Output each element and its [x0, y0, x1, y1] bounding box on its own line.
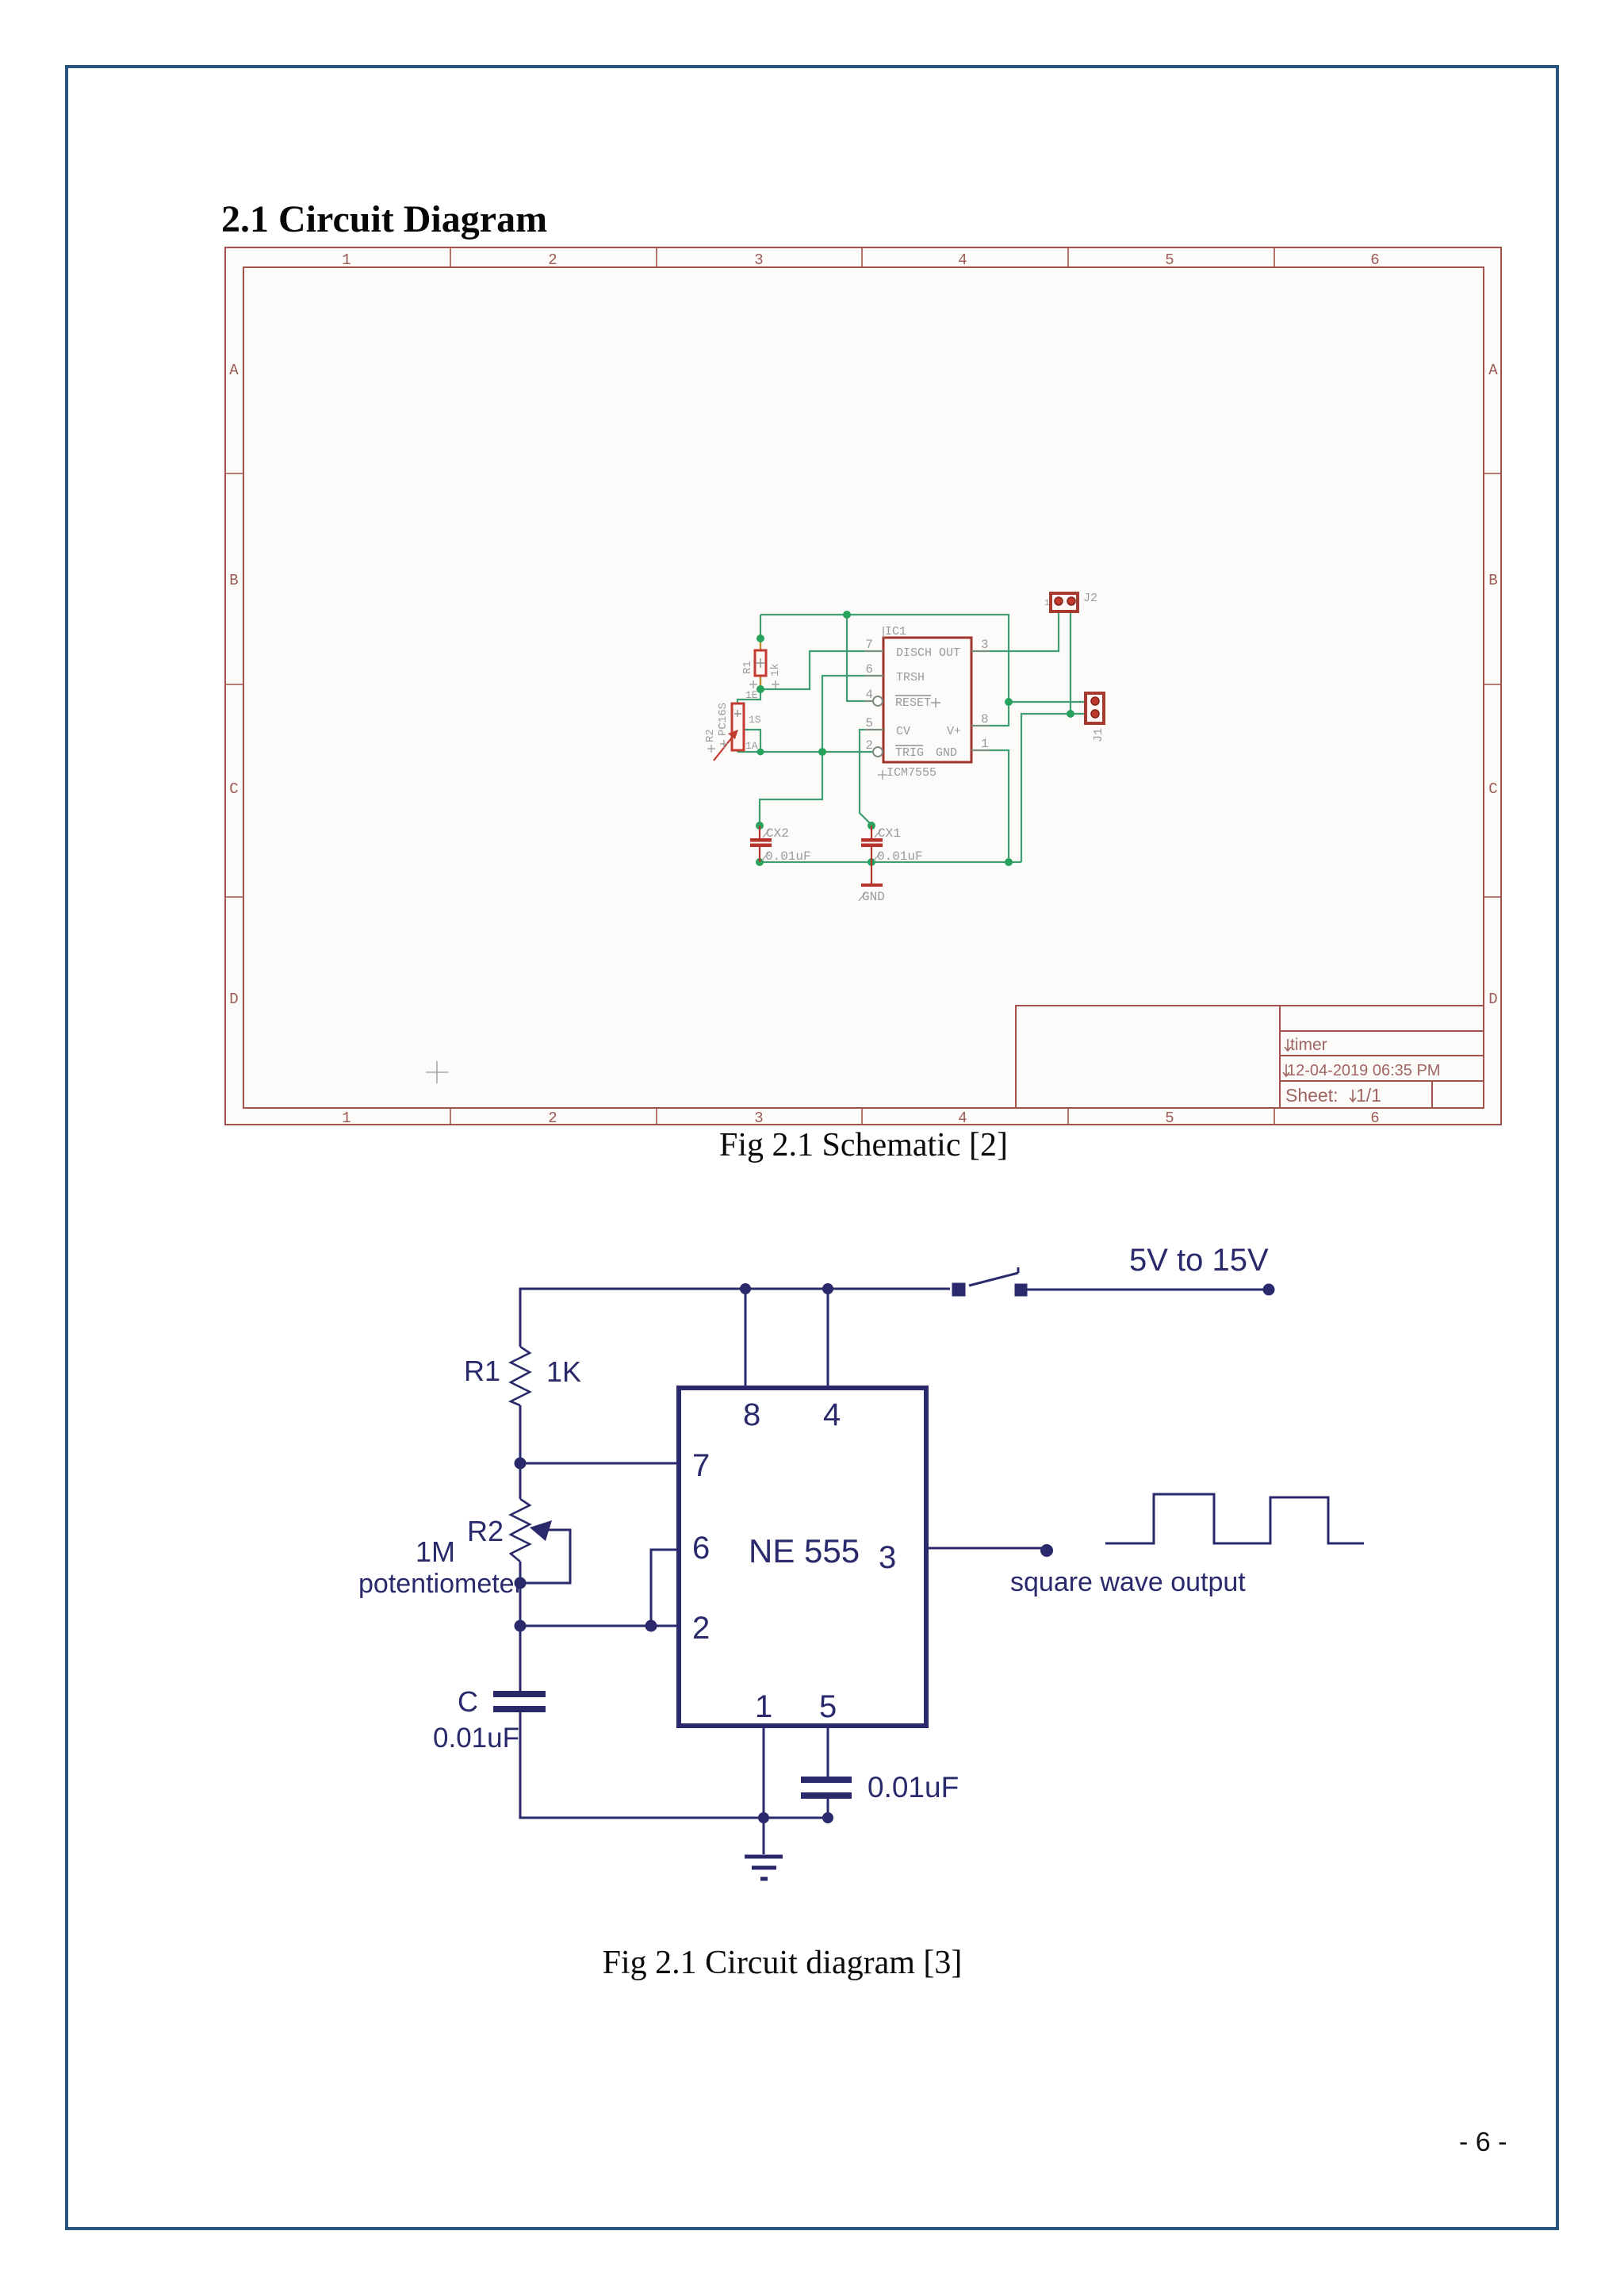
R2 pin labels — [745, 689, 761, 752]
node pin6 branch dot — [645, 1620, 657, 1632]
wire R2 wiper to TRIG — [744, 730, 760, 752]
IC1 pin numbers — [865, 638, 873, 753]
svg-text:2: 2 — [692, 1611, 710, 1646]
node supply end dot — [1263, 1284, 1275, 1296]
wire TRSH to TRIG and CX2 — [760, 676, 883, 826]
svg-text:NE 555: NE 555 — [749, 1532, 860, 1570]
square wave symbol — [1105, 1494, 1364, 1543]
node GND junction dots — [756, 710, 1074, 866]
svg-text:R2: R2 — [467, 1515, 504, 1547]
svg-text:C: C — [458, 1685, 478, 1718]
wire V+ top rail — [520, 1289, 1269, 1463]
wire VCC to J1 pin1 — [1009, 701, 1086, 703]
label C — [458, 1685, 478, 1718]
svg-text:6: 6 — [692, 1531, 710, 1566]
CX2 labels — [762, 826, 811, 864]
wire pin3 output — [926, 1547, 1043, 1550]
R2 label origin crosses — [707, 740, 728, 753]
IC1 reference label — [883, 625, 906, 638]
R2 labels — [704, 703, 730, 742]
wire DISCH to R1 bottom — [760, 651, 883, 689]
label 1M — [416, 1535, 455, 1568]
ground symbol — [745, 1819, 783, 1879]
wire pin6 — [651, 1550, 679, 1626]
switch SW1 — [953, 1267, 1026, 1295]
svg-text:4: 4 — [823, 1397, 841, 1432]
wire VCC top — [760, 615, 1009, 726]
wire R2 bottom lead — [519, 1562, 522, 1691]
svg-text:5: 5 — [819, 1689, 837, 1724]
wire OUT to J2 pin1 — [971, 611, 1059, 651]
svg-text:potentiometer: potentiometer — [358, 1569, 523, 1599]
node top rail dots — [740, 1283, 833, 1294]
title block variable markers — [1283, 1039, 1356, 1102]
wire IC pin1 to GND bus — [971, 750, 1009, 862]
wire R2 bottom stub — [737, 750, 738, 752]
ground symbol GND — [861, 862, 883, 885]
wire TRIG horizontal — [737, 751, 872, 753]
cursor cross — [426, 1061, 448, 1083]
label square wave output — [1010, 1567, 1246, 1597]
pin 4 RESET bubble — [873, 696, 883, 706]
wire C2 bottom lead — [827, 1799, 829, 1818]
wire pin1 down — [763, 1726, 765, 1818]
connector J1 — [1086, 693, 1104, 723]
label 5V to 15V — [1129, 1243, 1269, 1278]
capacitor CX2 — [750, 826, 772, 862]
capacitor C plates — [493, 1691, 546, 1712]
frame grid labels — [229, 251, 1498, 1127]
frame column ticks — [224, 247, 1502, 1125]
svg-text:5V to 15V: 5V to 15V — [1129, 1243, 1269, 1278]
node VCC junction dots — [843, 611, 1013, 706]
svg-text:square wave output: square wave output — [1010, 1567, 1246, 1597]
wire J1 pin2 GND — [1021, 714, 1086, 862]
IC1 pin names — [895, 646, 961, 760]
wire GND bottom bus — [760, 861, 1021, 863]
label R2 — [467, 1515, 504, 1547]
svg-text:0.01uF: 0.01uF — [868, 1771, 959, 1803]
capacitor C2 plates — [801, 1777, 852, 1799]
wire CV to CX1 — [860, 730, 883, 826]
label potentiometer — [358, 1569, 523, 1599]
J1 label — [1092, 728, 1105, 742]
node ground bus dots — [758, 1812, 833, 1823]
resistor R1 zigzag — [511, 1347, 530, 1405]
svg-text:1M: 1M — [416, 1535, 455, 1568]
caption figure 2.1 circuit diagram — [0, 1944, 1565, 1982]
schematic sheet background — [224, 247, 1502, 1125]
label NE 555 — [749, 1532, 860, 1570]
IC pin number labels — [692, 1397, 896, 1724]
svg-text:1: 1 — [755, 1689, 772, 1724]
node pin7 junction — [515, 1458, 527, 1470]
IC1 pin stubs left — [864, 651, 883, 730]
node R1 junction dots — [756, 634, 764, 693]
wire C bottom to ground bus — [520, 1712, 828, 1818]
R2 wiper arrow — [520, 1520, 570, 1583]
resistor R1 — [755, 650, 766, 676]
wire pin5 down — [827, 1726, 829, 1777]
J2 label — [1044, 592, 1097, 608]
title block text — [1285, 1036, 1440, 1106]
label R1 — [464, 1355, 500, 1387]
R1 label origin crosses — [749, 680, 779, 688]
svg-text:7: 7 — [692, 1448, 710, 1483]
label 1K — [546, 1355, 581, 1388]
IC1 origin cross — [931, 698, 940, 707]
wire pin2 — [520, 1625, 679, 1627]
IC U1 NE555 body — [679, 1388, 926, 1726]
R1 labels — [741, 661, 782, 677]
IC1 value label ICM7555 — [878, 766, 936, 780]
wire pin4 — [827, 1289, 829, 1388]
section heading — [221, 197, 547, 241]
title block boxes — [1016, 1006, 1484, 1108]
svg-text:0.01uF: 0.01uF — [433, 1723, 519, 1754]
node CX junction dots — [756, 822, 875, 830]
label C value — [433, 1723, 519, 1754]
wire pin8 — [745, 1289, 747, 1388]
connector J2 — [1051, 593, 1078, 611]
svg-text:R1: R1 — [464, 1355, 500, 1387]
capacitor CX1 — [861, 826, 883, 862]
pin 2 TRIG bubble — [873, 747, 883, 757]
svg-text:8: 8 — [743, 1397, 760, 1432]
wire J2 pin2 to GND net — [1070, 611, 1071, 714]
potentiometer R2 zigzag — [511, 1499, 530, 1562]
node output dot — [1040, 1544, 1053, 1557]
GND label — [859, 890, 885, 904]
IC1 pin stubs right — [971, 651, 990, 750]
page number — [1459, 2127, 1507, 2158]
svg-text:1K: 1K — [546, 1355, 581, 1388]
wire R2 top lead — [519, 1463, 522, 1499]
node wiper junction — [515, 1577, 527, 1589]
label C2 value — [868, 1771, 959, 1803]
pin name overlines — [895, 696, 931, 746]
wire pin7 — [520, 1462, 679, 1465]
wire R1 top lead — [760, 615, 761, 689]
svg-text:3: 3 — [879, 1540, 896, 1575]
node TRIG junction dots — [757, 748, 827, 756]
op-amp IC1 body — [883, 638, 971, 762]
drawing frame outer border — [225, 247, 1501, 1125]
node pin2 junction — [515, 1620, 527, 1632]
wire VCC to RESET — [847, 615, 872, 701]
CX1 labels — [874, 826, 923, 864]
caption figure 2.1 schematic — [0, 1126, 1624, 1164]
wire R1 bottom to R2 top — [737, 676, 760, 703]
potentiometer R2 — [714, 703, 744, 761]
